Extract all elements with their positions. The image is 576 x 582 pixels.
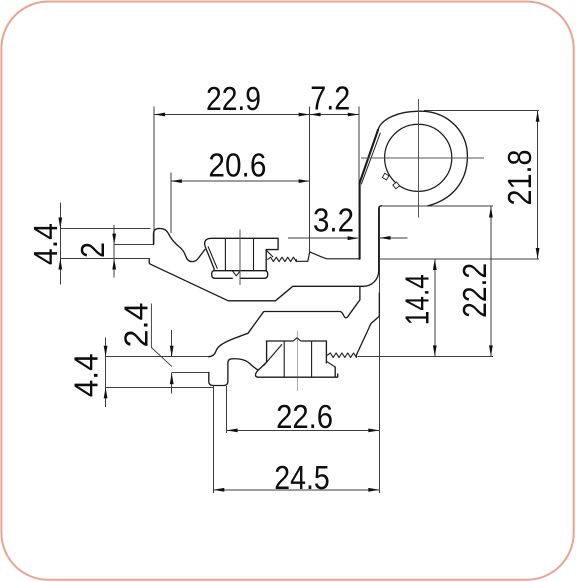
svg-text:20.6: 20.6: [208, 146, 266, 183]
svg-text:2.4: 2.4: [117, 303, 154, 348]
svg-text:2: 2: [74, 242, 111, 258]
svg-text:4.4: 4.4: [27, 223, 64, 265]
svg-text:22.9: 22.9: [206, 80, 261, 117]
svg-text:7.2: 7.2: [310, 80, 350, 117]
svg-text:4.4: 4.4: [68, 353, 105, 397]
svg-text:3.2: 3.2: [313, 202, 354, 239]
svg-text:14.4: 14.4: [398, 274, 435, 325]
svg-text:22.2: 22.2: [456, 263, 493, 318]
svg-text:21.8: 21.8: [501, 150, 538, 206]
svg-text:24.5: 24.5: [274, 459, 330, 496]
svg-text:22.6: 22.6: [276, 398, 333, 435]
